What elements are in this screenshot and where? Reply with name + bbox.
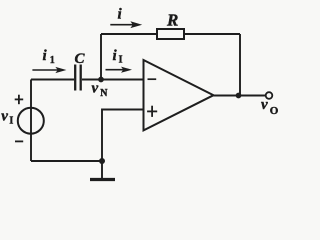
svg-text:i: i — [118, 7, 123, 23]
wire bottom rail — [31, 160, 102, 162]
capacitor C plates — [75, 65, 81, 91]
svg-text:I: I — [9, 116, 13, 127]
node vN junction dot — [98, 77, 104, 83]
node vN label — [92, 80, 109, 99]
svg-text:i: i — [113, 48, 118, 64]
svg-text:I: I — [119, 55, 123, 66]
wire source vertical branch (crosses source circle) — [30, 80, 32, 162]
current label i1 — [43, 48, 55, 66]
wire noninverting input to ground drop — [102, 110, 144, 179]
current label i1 (second) — [113, 48, 123, 65]
current arrow i1 (into inverting input) — [106, 67, 133, 73]
output label vO — [261, 97, 279, 117]
svg-text:v: v — [261, 97, 268, 113]
wire capacitor to inverting input — [82, 79, 144, 81]
voltage source plus sign — [15, 95, 24, 105]
current arrow i (feedback) — [110, 21, 142, 28]
ground — [90, 178, 115, 181]
wire top rail left of R — [101, 33, 157, 35]
svg-text:C: C — [75, 51, 86, 67]
wire feedback top-left vertical (node vN up to top rail) — [100, 34, 102, 80]
node ground junction dot — [99, 158, 105, 164]
wire input left (source corner to capacitor) — [31, 79, 74, 81]
svg-text:O: O — [270, 105, 279, 117]
svg-text:v: v — [92, 80, 99, 96]
op-amp U1 triangle — [144, 60, 214, 130]
node output junction dot — [236, 93, 242, 99]
resistor R body — [157, 29, 184, 39]
wire feedback right vertical down to output node — [239, 34, 241, 96]
svg-text:R: R — [166, 11, 178, 30]
voltage source V1 circle — [18, 108, 44, 134]
wire output — [214, 95, 267, 97]
output terminal vO open circle — [266, 92, 273, 99]
op-amp inverting pin minus sign — [148, 78, 157, 80]
op-amp noninverting pin plus sign — [147, 106, 157, 117]
svg-text:1: 1 — [50, 55, 55, 66]
svg-text:i: i — [43, 48, 48, 64]
svg-text:v: v — [1, 109, 8, 125]
svg-text:N: N — [100, 88, 108, 99]
current arrow i1 (into capacitor) — [32, 67, 66, 73]
wire top rail right of R — [184, 33, 240, 35]
voltage source minus sign — [15, 140, 23, 142]
voltage source label vI — [1, 109, 13, 127]
